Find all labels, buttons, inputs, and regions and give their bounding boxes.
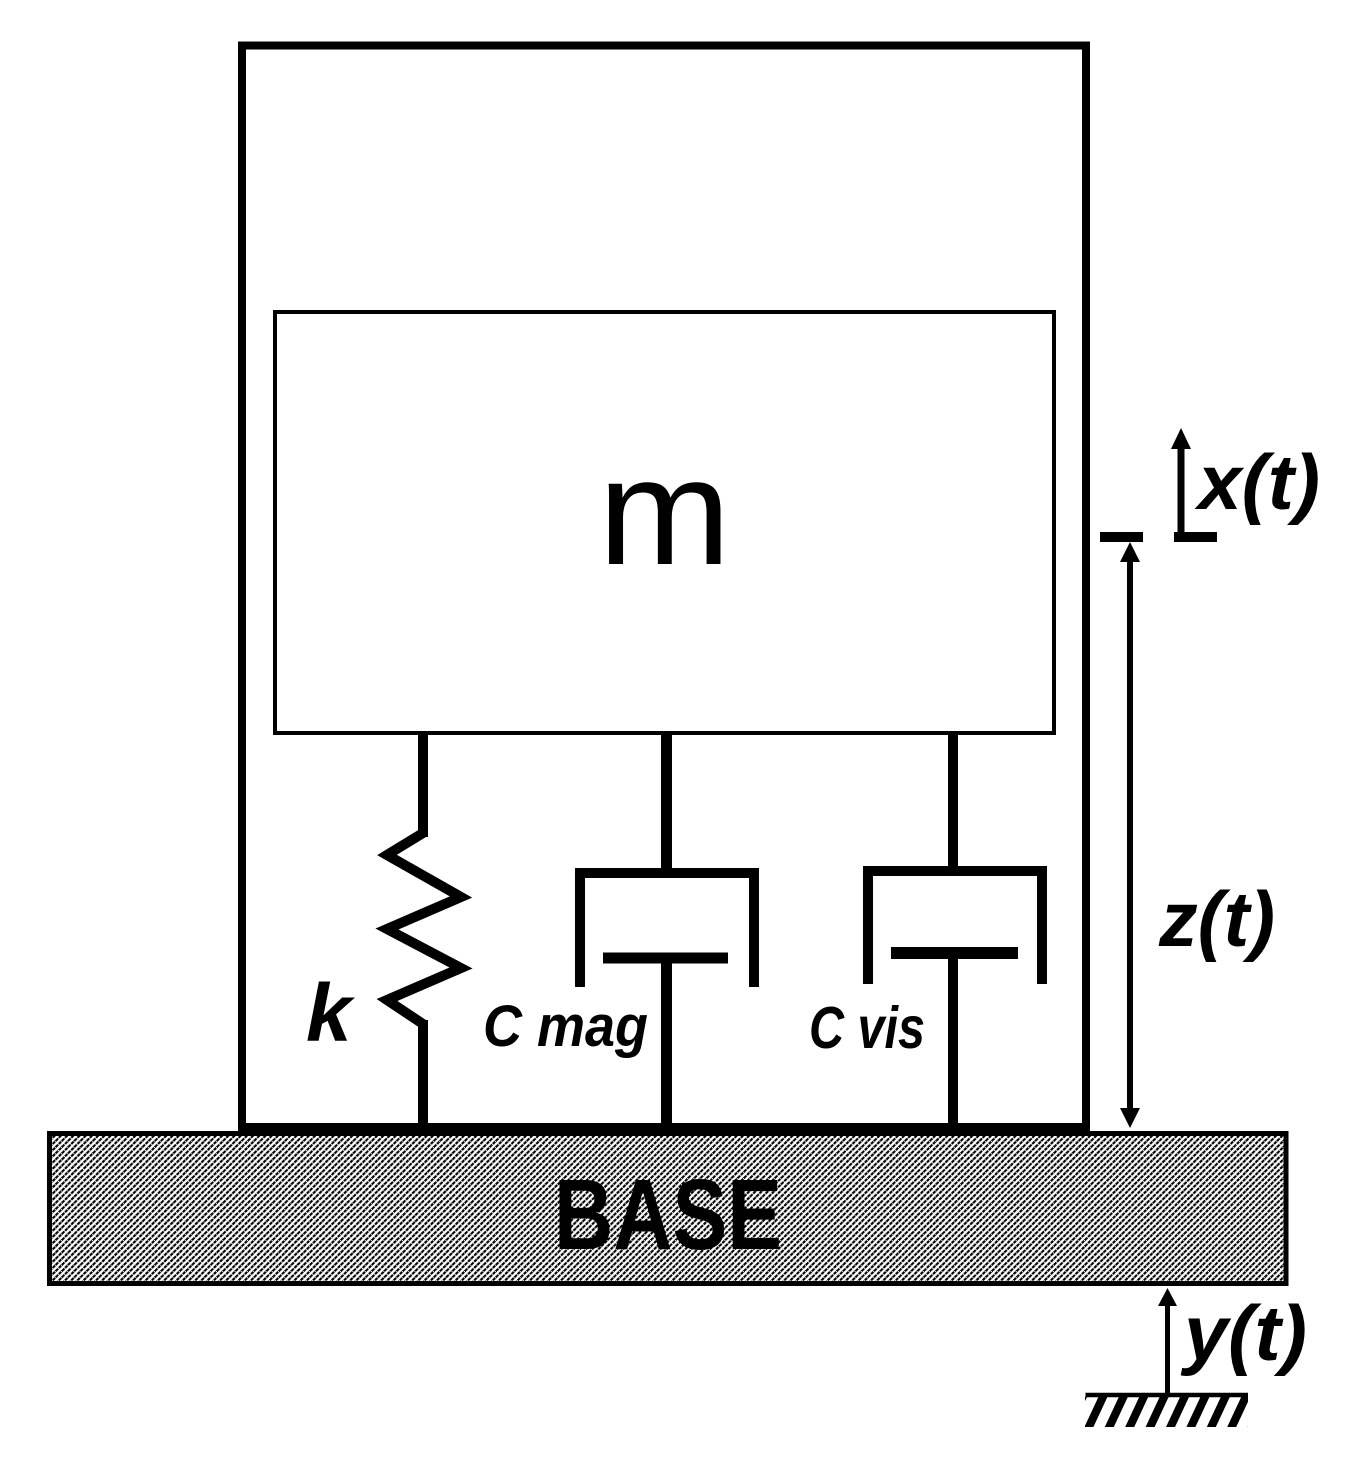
damper C mag piston [603, 953, 728, 964]
wire: mass to damper C vis [948, 735, 958, 876]
svg-text:BASE: BASE [554, 1159, 782, 1271]
arrow z(t) top head [1120, 542, 1140, 562]
arrow z(t) line [1127, 558, 1133, 1112]
damper C mag cylinder [575, 868, 759, 987]
svg-text:x(t): x(t) [1194, 438, 1320, 526]
svg-text:m: m [598, 427, 731, 597]
damper C vis cylinder [863, 866, 1047, 984]
svg-text:C vis: C vis [809, 995, 925, 1061]
ground hatch [1064, 1397, 1271, 1427]
svg-text:y(t): y(t) [1180, 1289, 1307, 1377]
svg-text:k: k [306, 968, 356, 1059]
svg-text:C mag: C mag [483, 994, 648, 1059]
spring k [387, 833, 461, 1024]
wire: spring to base [418, 1020, 428, 1131]
base slab [50, 1134, 1287, 1284]
mass m [275, 312, 1054, 733]
damper C vis piston [891, 947, 1018, 959]
wire: C mag piston to base [661, 955, 672, 1131]
wire: C vis piston to base [948, 950, 958, 1131]
wire: mass to spring [418, 735, 428, 837]
wire: mass to damper C mag [661, 735, 672, 878]
arrow x(t) line [1178, 446, 1185, 532]
arrow y(t) line [1165, 1303, 1170, 1395]
datum tick [1100, 532, 1143, 542]
arrow y(t) head [1158, 1288, 1177, 1306]
arrow x(t) head [1171, 428, 1191, 449]
outer frame [242, 46, 1086, 1128]
ground line [1086, 1393, 1249, 1398]
arrow z(t) bottom head [1120, 1108, 1140, 1128]
svg-text:z(t): z(t) [1158, 875, 1275, 963]
arrow x(t) base bar [1174, 532, 1217, 542]
